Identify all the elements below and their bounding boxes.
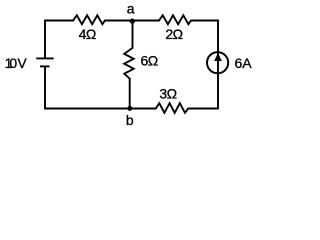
svg-text:2Ω: 2Ω bbox=[165, 26, 182, 42]
svg-text:10V: 10V bbox=[5, 55, 28, 71]
svg-text:6A: 6A bbox=[235, 55, 253, 71]
svg-text:4Ω: 4Ω bbox=[79, 26, 96, 42]
svg-text:a: a bbox=[127, 0, 135, 16]
svg-text:b: b bbox=[126, 112, 134, 128]
svg-text:6Ω: 6Ω bbox=[141, 53, 158, 69]
svg-text:3Ω: 3Ω bbox=[159, 86, 176, 102]
